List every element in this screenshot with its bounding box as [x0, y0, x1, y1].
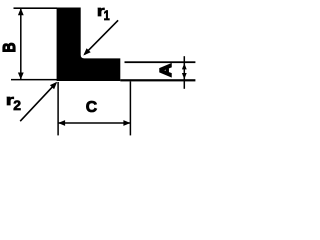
svg-text:1: 1 — [104, 8, 110, 23]
dimension A top extension line — [125, 61, 196, 63]
dimension C line — [58, 122, 130, 124]
dimension A top arrowhead — [182, 63, 187, 69]
svg-text:C: C — [86, 99, 97, 116]
dimension A bottom extension line — [120, 79, 195, 81]
dimension A bottom arrowhead — [182, 73, 187, 79]
svg-text:A: A — [156, 64, 175, 77]
dimension B bottom arrowhead — [18, 73, 24, 80]
dimension B bottom extension line — [11, 79, 57, 81]
leader r2 arrowhead — [50, 82, 57, 89]
dimension A line — [184, 56, 186, 89]
dimension C left arrowhead — [58, 120, 65, 126]
leader line r2 — [20, 83, 56, 121]
leader r1 arrowhead — [83, 48, 90, 55]
dimension C left extension line — [57, 82, 59, 135]
dimension C right arrowhead — [123, 120, 130, 126]
svg-text:B: B — [1, 43, 20, 53]
dimension B top extension line — [14, 7, 58, 9]
dimension B line — [20, 8, 22, 80]
angle profile (black L cross-section) — [57, 8, 121, 82]
leader line r1 — [85, 20, 119, 54]
dimension B top arrowhead — [18, 8, 24, 15]
dimension C right extension line — [130, 82, 132, 136]
svg-text:2: 2 — [13, 97, 21, 113]
